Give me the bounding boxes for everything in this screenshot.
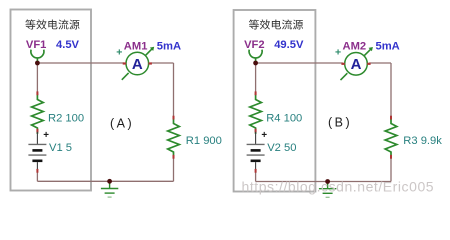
wire right-upper A (173, 63, 175, 118)
pin tick R1 bottom (173, 155, 175, 159)
wire top-left B (256, 62, 343, 64)
junction node ground A (107, 179, 112, 184)
ground B (319, 182, 336, 198)
junction node VF1 node (35, 61, 40, 66)
label 等效电流源 box B (249, 19, 303, 29)
voltage probe VF2 claw (249, 50, 262, 63)
svg-text:R4 100: R4 100 (266, 113, 302, 125)
wire bottom A (37, 180, 173, 182)
resistor R2 (32, 94, 44, 135)
svg-text:R3 9.9k: R3 9.9k (403, 135, 442, 147)
wire left-lower B (255, 171, 257, 182)
svg-text:5mA: 5mA (376, 41, 400, 53)
wire left-upper B (255, 63, 257, 94)
equivalent current source box A (11, 10, 92, 191)
resistor R4 (250, 94, 262, 135)
wire top-left A (37, 62, 124, 64)
svg-text:V1 5: V1 5 (49, 142, 72, 154)
svg-text:AM2: AM2 (343, 41, 367, 53)
pin tick R2 bottom (36, 129, 38, 133)
svg-text:5mA: 5mA (157, 41, 181, 53)
ammeter probe AM1 (122, 47, 154, 80)
equivalent current source box B (234, 10, 316, 192)
wire bottom B (256, 181, 391, 183)
ammeter probe AM2 (341, 47, 373, 80)
battery V2 (247, 132, 265, 171)
svg-text:( B ): ( B ) (328, 116, 350, 130)
svg-text:+: + (261, 130, 267, 141)
svg-text:https://blog.csdn.net/Eric005: https://blog.csdn.net/Eric005 (242, 178, 435, 194)
wire right-upper B (390, 63, 392, 118)
pin tick R1 top (173, 116, 175, 120)
wire top-right A (151, 62, 174, 64)
battery V1 (28, 132, 46, 171)
svg-text:+: + (335, 47, 341, 59)
ground A (101, 181, 118, 197)
pin tick R3 bottom (390, 155, 392, 159)
junction node VF2 node (253, 61, 258, 66)
junction node ground B (325, 179, 330, 184)
svg-text:V2 50: V2 50 (267, 142, 296, 154)
svg-text:+: + (116, 47, 122, 59)
svg-text:R2 100: R2 100 (48, 113, 84, 125)
label 等效电流源 box A (25, 19, 79, 29)
wire right-lower A (173, 157, 175, 182)
voltage probe VF1 claw (31, 50, 44, 63)
svg-text:VF2: VF2 (244, 39, 265, 51)
pin tick V1 bottom (36, 169, 38, 173)
svg-text:+: + (43, 130, 49, 141)
svg-text:R1 900: R1 900 (186, 135, 222, 147)
pin tick V2 bottom (255, 169, 257, 173)
wire top-right B (369, 62, 391, 64)
svg-text:VF1: VF1 (26, 39, 47, 51)
svg-text:( A ): ( A ) (110, 116, 132, 130)
pin tick R2 top (36, 91, 38, 95)
wire left-upper A (36, 63, 38, 94)
resistor R1 (168, 118, 180, 159)
pin tick R3 top (390, 116, 392, 120)
wire left-lower A (36, 171, 38, 182)
wire right-lower B (390, 157, 392, 182)
pin tick R4 top (255, 91, 257, 95)
pin tick R4 bottom (255, 129, 257, 133)
svg-text:4.5V: 4.5V (56, 39, 80, 51)
svg-text:49.5V: 49.5V (274, 39, 304, 51)
svg-text:AM1: AM1 (124, 41, 148, 53)
resistor R3 (385, 118, 397, 159)
